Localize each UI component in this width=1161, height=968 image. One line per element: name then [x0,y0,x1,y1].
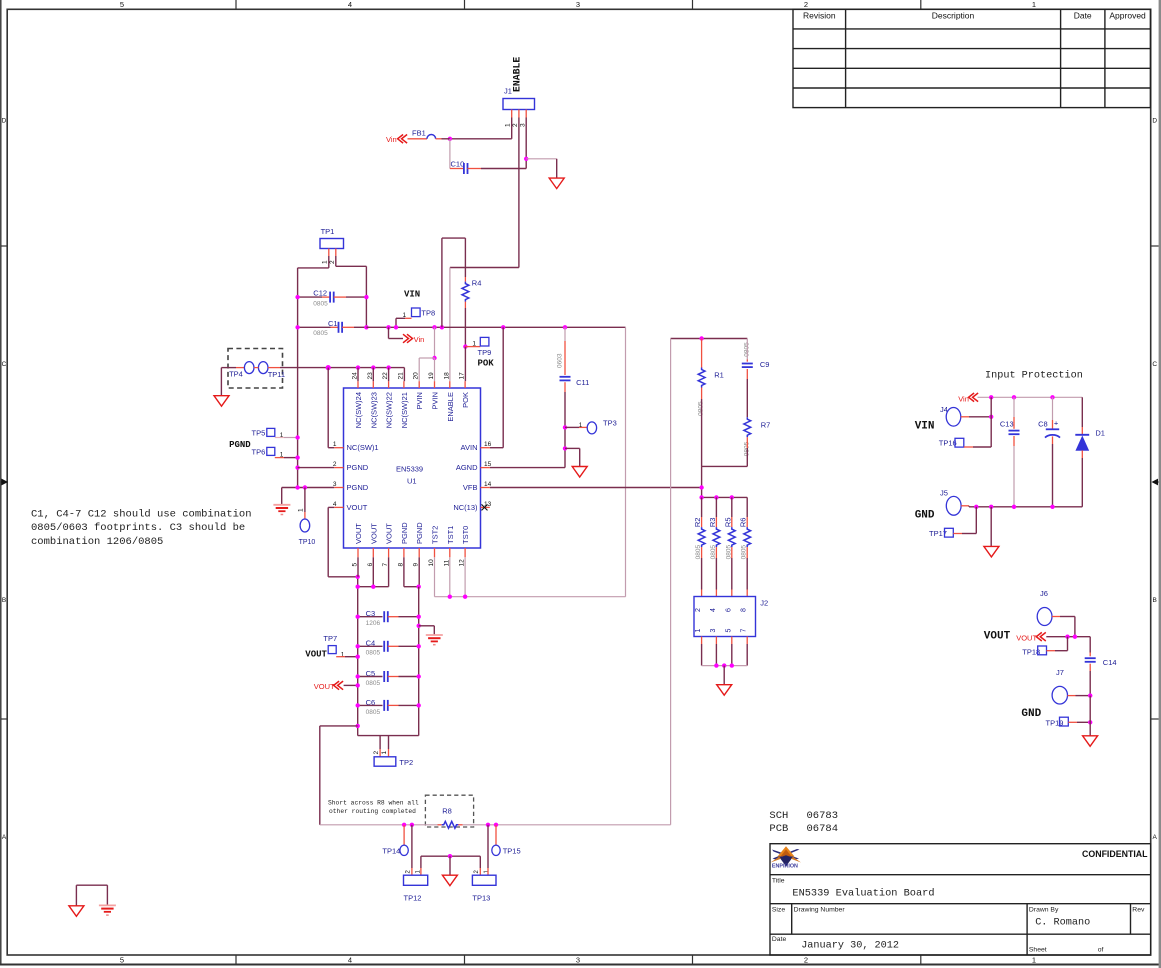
wire U1 pin4 VOUT down [328,506,334,508]
svg-text:PVIN: PVIN [415,392,424,410]
svg-text:1: 1 [579,422,583,429]
svg-text:POK: POK [461,392,470,408]
svg-text:2: 2 [804,956,808,965]
svg-text:NC(SW)22: NC(SW)22 [385,392,394,428]
wire R8 row left [320,824,438,826]
wire J1 pin3 down [525,118,527,169]
wire J1 pin2 down [518,118,520,268]
svg-text:4: 4 [348,956,352,965]
wire AVIN riser [501,325,505,329]
svg-text:C14: C14 [1103,658,1117,667]
svg-text:C. Romano: C. Romano [1035,918,1090,929]
svg-text:TP9: TP9 [478,348,492,357]
svg-text:3: 3 [710,629,717,633]
svg-text:7: 7 [741,629,748,633]
svg-text:1206: 1206 [366,620,381,627]
svg-text:Description: Description [932,11,975,21]
svg-text:B: B [2,597,6,604]
svg-text:EN5339 Evaluation Board: EN5339 Evaluation Board [792,888,934,900]
nodes NC(SW) pins [356,365,360,369]
svg-text:NC(SW)23: NC(SW)23 [369,392,378,428]
node TP6 junction [295,455,299,459]
test point TP13 [479,856,481,868]
svg-text:21: 21 [397,372,404,380]
wire TP1 pin2 to right rail [335,256,337,266]
svg-text:R8: R8 [442,807,452,816]
svg-text:TP16: TP16 [939,439,957,448]
node junction FB1/C10 [448,137,452,141]
svg-text:VFB: VFB [463,483,478,492]
svg-text:J6: J6 [1040,589,1048,598]
ground (output caps earth) [426,634,443,636]
wire to earth ground [281,488,283,505]
svg-text:Drawing Number: Drawing Number [794,907,846,914]
svg-text:ENPIRION: ENPIRION [772,864,798,870]
wire GND right rail [418,587,420,736]
wire PVIN pin20 jog [419,357,434,359]
svg-text:R6: R6 [739,518,748,528]
svg-text:R7: R7 [761,421,771,430]
wire J2 ground rail [702,665,748,667]
svg-text:J7: J7 [1056,668,1064,677]
dashed box around R8 [425,795,473,827]
wire VIN rail corner down (TST bus) [625,327,627,596]
svg-text:TST0: TST0 [461,526,470,544]
svg-text:TP1: TP1 [321,227,335,236]
resistor R2 [701,497,703,517]
wire VIN rail [366,326,625,328]
svg-text:VOUT: VOUT [984,631,1011,643]
wire to input ground [990,507,992,547]
svg-text:D: D [1152,118,1157,125]
svg-text:NC(13): NC(13) [453,503,478,512]
svg-text:C9: C9 [760,360,770,369]
svg-text:1: 1 [322,260,329,264]
svg-text:Vin: Vin [958,394,969,403]
svg-text:TP10: TP10 [299,539,316,546]
svg-text:TP14: TP14 [382,847,400,856]
svg-text:16: 16 [484,441,492,448]
svg-text:VIN: VIN [915,421,935,433]
wire R8 row right [463,824,671,826]
resistor R6 [746,497,748,517]
op IC U1 EN5339 body [344,388,481,548]
J2 bottom pin wires [701,637,703,645]
svg-text:5: 5 [120,956,124,965]
svg-text:C1, C4-7 C12 should use combin: C1, C4-7 C12 should use combination [31,509,252,521]
svg-text:C8: C8 [1038,420,1048,429]
node TP9 junction [463,344,467,348]
svg-text:Date: Date [772,936,787,943]
svg-text:1: 1 [1032,956,1036,965]
wire R2-R6 top rail [702,496,748,498]
svg-text:C10: C10 [451,160,465,169]
wire left rail (C12/C1 left) [297,268,299,488]
svg-text:3: 3 [519,123,526,127]
dashed box around TP4/TP11 [228,349,283,389]
svg-text:C11: C11 [576,378,589,387]
U1 left pin stubs [334,447,343,449]
svg-text:1: 1 [298,508,305,512]
svg-text:18: 18 [443,372,450,380]
svg-text:17: 17 [459,372,466,380]
svg-text:Size: Size [772,907,785,914]
wire divider bottom rail [702,465,748,467]
capacitor C11 [563,325,567,329]
svg-text:PGND: PGND [400,522,409,544]
node junction pin3/ground branch [524,157,528,161]
svg-text:SCH: SCH [769,810,788,822]
svg-text:4: 4 [710,608,717,612]
svg-text:GND: GND [915,510,935,522]
wire GND row [968,506,970,507]
wire down to C10 [449,139,451,169]
svg-text:TP2: TP2 [399,758,413,767]
svg-text:VOUT: VOUT [385,523,394,544]
ground (spare earth) [99,904,116,906]
no-connect X on pin 13 [482,504,488,510]
svg-text:0805: 0805 [313,330,328,337]
capacitor C14 [1089,637,1091,653]
svg-text:2: 2 [695,608,702,612]
test point TP2 [379,736,381,749]
wire U1 pin1 riser [327,368,329,448]
title block frame [770,844,1151,955]
svg-text:0805/0603 footprints. C3 shoul: 0805/0603 footprints. C3 should be [31,522,245,534]
Enpirion logo [771,846,802,869]
net label Vin (power arrow) [386,325,390,329]
svg-text:U1: U1 [407,477,417,486]
svg-text:06784: 06784 [807,823,839,835]
svg-text:A: A [2,834,7,841]
wire caps bottom rail [358,735,419,737]
svg-text:GND: GND [1021,708,1041,720]
svg-text:PGND: PGND [229,440,251,450]
svg-text:FB1: FB1 [412,128,426,137]
wires NC(SW)24-21 drops [357,368,359,382]
node J4 junction [989,415,993,419]
node TP3 junction [563,425,567,429]
svg-text:R3: R3 [708,518,717,528]
wire VOUT left rail [357,577,359,736]
svg-text:VOUT: VOUT [1016,634,1037,643]
test point TP11 [258,362,268,374]
zone tick marks bottom [235,955,237,965]
svg-text:Vin: Vin [414,335,425,344]
svg-text:other routing completed: other routing completed [329,808,416,815]
svg-text:NC(SW)1: NC(SW)1 [347,443,379,452]
svg-text:0603: 0603 [556,353,563,368]
svg-text:1: 1 [505,123,512,127]
svg-text:TP7: TP7 [323,634,337,643]
svg-text:Title: Title [772,878,785,885]
test point TP12 [411,825,413,868]
svg-text:TP15: TP15 [503,847,521,856]
ground (AGND) [572,467,587,478]
svg-text:5: 5 [725,629,732,633]
U1 right pin stubs [481,447,490,449]
svg-text:1: 1 [695,629,702,633]
node VFB junction [699,485,703,489]
svg-text:D: D [2,118,7,125]
resistor R1 [701,339,703,368]
wire J1 pin1 down [511,118,513,139]
svg-text:2: 2 [373,751,380,755]
svg-text:5: 5 [120,0,124,9]
svg-text:PVIN: PVIN [431,392,440,410]
svg-text:combination 1206/0805: combination 1206/0805 [31,536,163,548]
svg-text:1: 1 [1032,0,1036,9]
svg-text:0805: 0805 [366,650,381,657]
test point TP14 [403,825,405,846]
svg-text:VOUT: VOUT [305,650,327,660]
svg-text:of: of [1098,947,1104,954]
svg-text:TP6: TP6 [252,448,266,457]
svg-text:J5: J5 [940,489,948,498]
svg-text:C: C [1152,361,1157,368]
test point TP5 [267,428,275,436]
wire R4 to POK pin17 [464,308,466,347]
svg-text:AGND: AGND [456,463,478,472]
svg-text:4: 4 [348,0,352,9]
resistor R7 [746,379,748,417]
svg-text:C13: C13 [1000,420,1014,429]
test point TP8 [412,308,421,317]
U1 bottom pin stubs [357,548,359,557]
svg-text:R4: R4 [472,279,482,288]
wire AGND pin15 [490,467,565,469]
svg-text:6: 6 [725,608,732,612]
wire PVIN pin19 feed [432,325,436,329]
wire divider top rail [671,338,748,340]
node pin1 branch [326,365,331,370]
svg-text:2: 2 [804,0,808,9]
svg-text:ENABLE: ENABLE [446,392,455,422]
svg-text:3: 3 [576,0,580,9]
wire FB1 to J1 pin1 [450,138,512,140]
ground (output section) [1083,736,1098,747]
ground (PGND earth) [273,504,290,506]
svg-text:Approved: Approved [1109,11,1146,21]
svg-text:1: 1 [472,341,476,348]
wire jog to ENABLE column [450,267,519,269]
wire ENABLE column down to U1 pin 18 [449,268,451,382]
sheet outer border [0,0,2,965]
svg-text:06783: 06783 [807,810,839,822]
svg-text:Drawn By: Drawn By [1029,907,1059,914]
wire spare ground link [76,884,107,886]
test point TP6 [267,447,275,455]
wire to ground [526,158,557,160]
svg-text:Rev: Rev [1132,907,1145,914]
wire pins 8,9 join [403,557,405,586]
svg-text:ENABLE: ENABLE [512,57,523,92]
svg-text:NC(SW)21: NC(SW)21 [400,392,409,428]
svg-text:J2: J2 [760,599,768,608]
wire VOUT row [1046,636,1090,638]
svg-text:CONFIDENTIAL: CONFIDENTIAL [1082,849,1148,859]
ground (TP4) [214,396,229,407]
svg-text:Input Protection: Input Protection [985,370,1083,382]
svg-text:EN5339: EN5339 [396,465,423,474]
wire U1 pin2 [295,465,299,469]
svg-text:R1: R1 [714,371,724,380]
svg-text:C12: C12 [313,289,327,298]
svg-text:PGND: PGND [347,483,369,492]
ferrite bead FB1 [408,138,428,140]
wire down to R8 row [320,725,358,727]
svg-text:January 30, 2012: January 30, 2012 [801,941,899,952]
wire U1 pin3 row [282,487,335,489]
svg-text:TP4: TP4 [229,370,243,379]
ground (J1) [549,178,564,189]
node ground branch [417,624,421,628]
test point TP15 [495,825,497,846]
svg-text:Vin: Vin [386,135,397,144]
svg-text:TP8: TP8 [421,309,435,318]
ground (TP12/13) [442,875,457,886]
svg-text:15: 15 [484,461,492,468]
svg-text:3: 3 [576,956,580,965]
revision table [793,9,1150,107]
right mid fold arrow [1156,481,1159,483]
svg-text:VOUT: VOUT [354,523,363,544]
ground (spare triangle) [69,906,84,917]
svg-text:B: B [1153,597,1157,604]
svg-text:A: A [1153,834,1158,841]
test point TP9 [465,346,480,348]
svg-text:VOUT: VOUT [314,682,335,691]
left mid fold arrow [1,481,4,483]
connector J1 [503,99,535,110]
resistor R3 [715,497,717,517]
svg-text:PGND: PGND [415,522,424,544]
svg-text:R5: R5 [723,518,732,528]
wire C10 to J1 pin3 column [481,168,526,170]
nodes R8 row [402,823,406,827]
svg-text:Date: Date [1074,11,1092,21]
svg-text:PCB: PCB [769,823,788,835]
svg-text:TP5: TP5 [252,428,266,437]
wire VOUT sense drop (to R8 row) [670,339,672,825]
svg-text:2: 2 [329,260,336,264]
ground (J2) [717,685,732,696]
svg-text:AVIN: AVIN [461,443,478,452]
connector J2 [694,597,756,637]
node R8 branch [356,724,360,728]
svg-text:TP12: TP12 [404,894,422,903]
node TP5 junction [295,435,299,439]
svg-text:POK: POK [478,359,495,369]
wire TP1 pin1 to left rail [328,256,330,268]
node J7 junction [1088,693,1092,697]
svg-text:0805: 0805 [313,300,328,307]
wire Vin top rail [978,396,1083,398]
wire left to ground [221,367,236,369]
svg-text:VIN: VIN [404,290,420,300]
svg-text:VOUT: VOUT [369,523,378,544]
svg-text:+: + [1054,419,1059,428]
ground (input section) [984,546,999,557]
svg-text:TST2: TST2 [431,526,440,544]
zone tick marks top [235,0,237,9]
test point TP1 [320,239,344,249]
wire pins 5,6,7 join [357,557,359,577]
svg-text:TST1: TST1 [446,526,455,544]
wire NC(SW) rail [268,367,280,369]
svg-text:PGND: PGND [347,463,369,472]
test point TP4 [244,362,254,374]
svg-text:Revision: Revision [803,11,836,21]
svg-text:0805: 0805 [366,709,381,716]
J1 pin stubs 1,2,3 [511,110,513,118]
wire TP12/TP13 ground link [421,855,480,857]
U1 top pin stubs [357,381,359,388]
svg-text:20: 20 [413,372,420,380]
svg-text:0805: 0805 [366,680,381,687]
test point TP3 [565,426,579,428]
wire TST0-2 bus [434,557,436,596]
svg-text:Short across R8 when all: Short across R8 when all [328,800,419,807]
wire VFB pin14 [490,487,702,489]
resistor R4 [464,277,466,282]
zone tick marks left/right [1,245,7,247]
node AGND ground branch [563,446,567,450]
svg-text:2: 2 [512,123,519,127]
svg-text:Sheet: Sheet [1029,947,1047,954]
svg-text:C: C [2,361,7,368]
svg-text:NC(SW)24: NC(SW)24 [354,392,363,428]
svg-text:1: 1 [381,751,388,755]
svg-text:VOUT: VOUT [347,503,368,512]
svg-text:TP13: TP13 [472,894,490,903]
wire R4 feed jog [440,325,444,329]
svg-text:19: 19 [428,372,435,380]
svg-text:1: 1 [341,652,345,659]
svg-text:14: 14 [484,481,492,488]
svg-text:R2: R2 [693,518,702,528]
wire right rail (C12/C1 right) [365,266,367,327]
test point TP10 [304,488,306,513]
svg-text:8: 8 [741,608,748,612]
resistor R5 [731,497,733,517]
svg-text:TP3: TP3 [603,419,617,428]
svg-text:D1: D1 [1095,429,1105,438]
svg-text:TP11: TP11 [268,370,285,379]
